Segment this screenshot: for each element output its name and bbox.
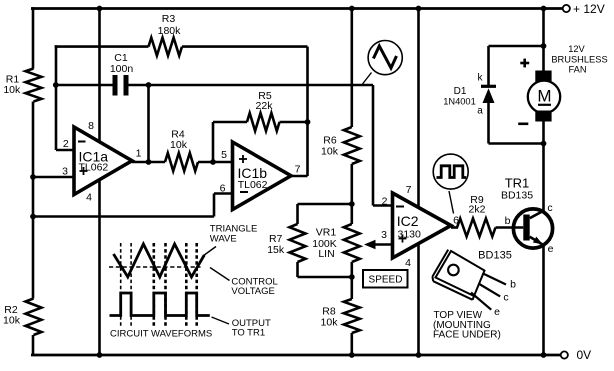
junction bottom x543	[541, 352, 547, 358]
svg-text:TL062: TL062	[238, 179, 268, 191]
svg-text:10k: 10k	[170, 139, 188, 151]
BD135 lead b	[483, 274, 516, 291]
resistor R8	[321, 299, 360, 333]
wire R5 left	[213, 122, 247, 162]
pin 4 label	[86, 192, 92, 204]
svg-text:TO TR1: TO TR1	[232, 328, 265, 339]
pin 7 label IC2	[406, 184, 412, 196]
svg-text:IC2: IC2	[397, 213, 419, 229]
scope pointer 1	[363, 73, 372, 85]
wire R3 left	[55, 45, 149, 48]
junction top x418	[416, 6, 422, 12]
0V terminal	[561, 348, 591, 362]
wire collector	[542, 122, 545, 212]
junction D1 top	[541, 43, 547, 49]
svg-text:VOLTAGE: VOLTAGE	[231, 286, 274, 297]
wire IC1b pin6	[33, 194, 233, 217]
svg-text:b: b	[510, 279, 516, 291]
IC1b plus	[239, 155, 247, 163]
wire IC2 out	[451, 226, 458, 229]
svg-text:0V: 0V	[577, 348, 592, 362]
node A junction pin3	[30, 174, 36, 180]
pin 3 label	[62, 166, 68, 178]
resistor R6	[321, 127, 360, 164]
scope icon triangle wave	[368, 41, 402, 75]
svg-text:2: 2	[382, 196, 388, 208]
svg-text:2k2: 2k2	[469, 204, 486, 216]
resistor R7	[267, 224, 305, 262]
svg-text:b: b	[505, 215, 511, 227]
svg-text:3: 3	[381, 229, 387, 241]
wire R2 bottom	[32, 335, 35, 356]
wire R4 to pin5	[198, 161, 233, 164]
waveform control voltage dashed	[109, 266, 201, 268]
junction C1 left	[53, 82, 59, 88]
BD135 lead c	[479, 284, 509, 304]
svg-text:12V: 12V	[568, 44, 585, 54]
pin 1 label	[136, 148, 142, 160]
IC2 plus	[399, 235, 407, 243]
resistor R1	[3, 69, 41, 102]
pin 8 label	[88, 120, 94, 132]
junction bottom x100	[97, 352, 103, 358]
svg-text:FACE UNDER): FACE UNDER)	[433, 330, 501, 341]
junction VR1 top	[349, 201, 355, 207]
label top view	[433, 310, 501, 341]
label control voltage	[210, 268, 278, 298]
scope icon square wave	[433, 154, 468, 189]
svg-text:8: 8	[88, 120, 94, 132]
label triangle wave	[204, 224, 257, 256]
wire IC1a pin2 branch	[56, 45, 75, 150]
IC2 minus	[396, 206, 404, 208]
wire 0V bottom rail	[31, 354, 561, 357]
svg-text:15k: 15k	[267, 244, 285, 256]
svg-text:180k: 180k	[158, 25, 182, 37]
svg-text:SPEED: SPEED	[369, 275, 403, 286]
fan minus	[518, 123, 528, 126]
pin 2 label	[63, 138, 69, 150]
junction bottom x418	[416, 352, 422, 358]
IC1a plus	[80, 167, 88, 175]
svg-text:c: c	[503, 292, 508, 304]
junction top x543	[541, 6, 547, 12]
wire IC2 pin4 ground	[417, 245, 420, 355]
svg-text:e: e	[548, 243, 554, 255]
pin 5 label	[221, 149, 227, 161]
svg-text:BD135: BD135	[478, 250, 512, 262]
wire emitter	[542, 246, 545, 355]
wire R7 top	[298, 204, 352, 224]
svg-text:VR1: VR1	[316, 227, 337, 239]
svg-text:c: c	[547, 202, 552, 214]
wire VR1 bottom	[350, 262, 353, 299]
wire IC1a pin8 supply	[98, 9, 101, 142]
label b	[505, 215, 511, 227]
junction top x100	[97, 6, 103, 12]
pin 4 label IC2	[405, 257, 411, 269]
svg-text:2: 2	[63, 138, 69, 150]
IC1b minus	[240, 191, 248, 193]
wire top to fan	[542, 9, 545, 71]
wire C1 to output	[147, 85, 150, 162]
VR1 wiper arrow	[364, 240, 393, 249]
svg-text:M: M	[537, 87, 551, 106]
svg-text:TR1: TR1	[505, 176, 530, 191]
resistor R2	[3, 299, 41, 336]
wire R6 top	[350, 9, 353, 128]
resistor R4	[165, 129, 198, 172]
capacitor C1	[110, 52, 134, 96]
wire R5 right	[280, 121, 308, 124]
junction bottom x352	[349, 352, 355, 358]
waveform triangle wave	[114, 244, 205, 277]
op-amp IC1a	[74, 127, 132, 195]
svg-text:LIN: LIN	[318, 248, 334, 260]
wire triangle node	[373, 85, 393, 206]
scope pointer 2	[449, 191, 454, 214]
wire R9 to base	[496, 226, 524, 229]
node B junction pin6	[30, 214, 36, 220]
junction C1 right	[146, 82, 152, 88]
pin 6 label IC2	[453, 215, 459, 227]
+12V terminal	[563, 2, 605, 16]
wire D1 top branch	[489, 46, 544, 85]
pin 6 label	[220, 183, 226, 195]
junction pin1	[146, 159, 152, 165]
junction top x352	[349, 6, 355, 12]
svg-text:10k: 10k	[3, 315, 21, 327]
fan plus	[520, 59, 529, 68]
pin 3 label IC2	[381, 229, 387, 241]
svg-text:10k: 10k	[321, 146, 339, 158]
resistor R5	[247, 90, 280, 131]
transistor TR1	[501, 176, 554, 256]
diode D1	[443, 73, 496, 117]
label 12V brushless fan	[551, 44, 607, 75]
svg-text:CIRCUIT WAVEFORMS: CIRCUIT WAVEFORMS	[110, 329, 212, 340]
svg-text:4: 4	[405, 257, 411, 269]
svg-text:10k: 10k	[3, 84, 21, 96]
svg-text:FAN: FAN	[568, 65, 586, 75]
IC1a minus	[78, 141, 86, 143]
svg-text:D1: D1	[454, 86, 467, 97]
svg-text:k: k	[478, 73, 484, 84]
svg-text:a: a	[477, 106, 483, 117]
resistor R9	[457, 194, 496, 237]
junction R5-pin7	[305, 119, 311, 125]
svg-text:WAVE: WAVE	[210, 234, 237, 245]
junction VR1 bottom	[349, 274, 355, 280]
svg-text:+ 12V: + 12V	[573, 2, 605, 16]
label circuit waveforms	[110, 329, 212, 340]
svg-text:e: e	[494, 306, 500, 318]
wire +12V top rail	[31, 7, 562, 10]
wire R1 top	[32, 7, 35, 68]
svg-text:7: 7	[406, 184, 412, 196]
svg-text:4: 4	[86, 192, 92, 204]
svg-text:5: 5	[221, 149, 227, 161]
motor M1	[528, 71, 560, 122]
wire C1 right	[129, 84, 374, 87]
wire IC1b pin7 out	[291, 175, 308, 178]
svg-text:100n: 100n	[110, 63, 134, 75]
wire IC2 pin7 supply	[417, 9, 420, 208]
svg-text:BD135: BD135	[501, 190, 533, 202]
label output to TR1	[212, 317, 271, 339]
wire IC1a pin3	[33, 176, 75, 179]
waveform square wave	[110, 293, 210, 316]
wire IC1a pin4 ground	[98, 180, 101, 355]
svg-text:1: 1	[136, 148, 142, 160]
wire R3 right	[182, 47, 308, 176]
BD135 lead e	[471, 293, 500, 319]
svg-text:C1: C1	[114, 52, 128, 64]
SPEED label box	[363, 270, 408, 288]
op-amp IC1b	[233, 142, 292, 210]
wire C1 left	[56, 84, 113, 87]
potentiometer VR1	[312, 224, 360, 262]
wire R6 bottom	[350, 164, 353, 224]
wire R8 bottom	[350, 333, 353, 355]
junction pin5	[210, 159, 216, 165]
BD135 package top view	[432, 250, 511, 300]
svg-text:10k: 10k	[321, 317, 339, 329]
pin 7 label	[295, 164, 301, 176]
svg-text:22k: 22k	[256, 100, 274, 112]
svg-text:BRUSHLESS: BRUSHLESS	[551, 55, 607, 65]
wire D1 bottom	[489, 103, 544, 144]
svg-text:1N4001: 1N4001	[443, 97, 476, 107]
wire R7 bottom	[298, 262, 352, 277]
wire pin1 out	[132, 161, 165, 164]
svg-text:R3: R3	[162, 13, 176, 25]
op-amp IC2	[393, 193, 452, 258]
wire R1-R2 node	[32, 102, 35, 299]
pin 2 label IC2	[382, 196, 388, 208]
waveform dashed verticals	[121, 243, 197, 326]
resistor R3	[149, 13, 183, 56]
junction D1 bottom	[541, 141, 547, 147]
svg-text:7: 7	[295, 164, 301, 176]
